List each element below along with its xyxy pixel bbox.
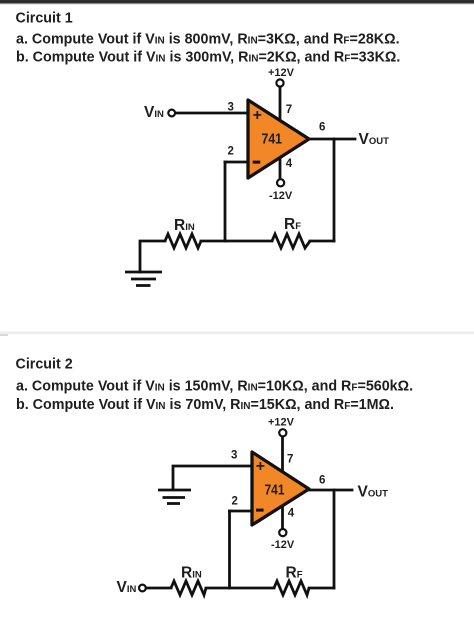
ground symbol circuit1 <box>125 272 162 286</box>
wire: Vin to pin 3 <box>177 112 249 115</box>
svg-text:4: 4 <box>288 508 295 520</box>
svg-text:b. Compute Vout if VIN is 70mV: b. Compute Vout if VIN is 70mV, RIN=15KΩ… <box>16 397 394 413</box>
svg-text:VIN: VIN <box>117 579 137 596</box>
wire: feedback vertical from output <box>333 490 336 588</box>
terminal Vin circuit2 <box>139 585 146 592</box>
svg-text:3: 3 <box>231 450 237 462</box>
op-amp minus input marker <box>253 161 261 164</box>
wire: pin 2 vertical to feedback node <box>224 162 227 241</box>
svg-text:RIN: RIN <box>174 217 195 234</box>
svg-text:6: 6 <box>319 475 325 487</box>
svg-text:Circuit 2: Circuit 2 <box>16 357 73 373</box>
wire: pin 3 to ground corner <box>173 466 252 489</box>
svg-text:VIN: VIN <box>144 104 164 121</box>
wire: pin 2 horizontal <box>230 510 253 513</box>
wire: pin 2 horizontal <box>225 161 249 164</box>
op-amp U1 741 triangle <box>248 100 309 178</box>
wire: Rf to feedback corner <box>309 587 334 590</box>
wire: pin 4 stem to -12V terminal <box>281 506 284 529</box>
svg-text:4: 4 <box>286 158 293 170</box>
svg-text:7: 7 <box>286 104 292 116</box>
svg-text:-12V: -12V <box>269 190 293 202</box>
svg-text:741: 741 <box>265 483 285 499</box>
svg-text:2: 2 <box>228 146 234 158</box>
resistor Rin circuit2 <box>171 581 206 595</box>
svg-text:RF: RF <box>284 216 301 233</box>
top black border bar <box>0 0 474 3</box>
terminal +12V circuit1 <box>276 79 283 86</box>
svg-text:VOUT: VOUT <box>359 131 390 148</box>
wire: Vin terminal to Rin <box>147 587 171 590</box>
svg-text:+: + <box>256 458 265 475</box>
svg-text:3: 3 <box>228 102 234 114</box>
wire: Rin to node to Rf <box>201 240 272 243</box>
resistor Rin circuit1 <box>165 234 201 248</box>
wire: pin 4 stem to -12V terminal <box>279 157 282 180</box>
svg-text:+12V: +12V <box>268 417 295 429</box>
terminal Vin circuit1 <box>168 110 175 117</box>
wire: feedback vertical from output <box>333 139 336 241</box>
svg-text:a. Compute Vout if VIN is 800m: a. Compute Vout if VIN is 800mV, RIN=3KΩ… <box>16 31 400 47</box>
wire: output from pin 6 <box>309 489 352 492</box>
resistor Rf circuit2 <box>274 581 309 595</box>
svg-text:b. Compute Vout if VIN is 300m: b. Compute Vout if VIN is 300mV, RIN=2KΩ… <box>16 50 400 66</box>
svg-text:2: 2 <box>232 496 238 508</box>
terminal -12V circuit1 <box>277 179 284 186</box>
op-amp minus input marker circuit2 <box>256 509 264 512</box>
svg-text:RIN: RIN <box>181 565 202 582</box>
section separator line <box>0 332 474 335</box>
svg-text:6: 6 <box>319 122 325 134</box>
terminal -12V circuit2 <box>279 529 286 536</box>
wire: ground corner to Rin <box>140 241 165 272</box>
terminal +12V circuit2 <box>279 429 286 436</box>
svg-text:+12V: +12V <box>268 67 295 79</box>
wire: Rf to feedback corner <box>310 240 334 243</box>
ground symbol circuit2 <box>158 490 191 504</box>
svg-text:RF: RF <box>286 565 303 582</box>
wire: output from pin 6 <box>309 138 355 141</box>
svg-text:-12V: -12V <box>271 539 295 551</box>
svg-text:VOUT: VOUT <box>358 484 389 501</box>
wire: +12V stem to op-amp pin 7 <box>279 86 282 121</box>
resistor Rf circuit1 <box>272 234 310 248</box>
wire: Rin to node to Rf <box>206 587 274 590</box>
wire: pin 2 vertical to input node <box>228 511 231 588</box>
svg-text:7: 7 <box>287 454 293 466</box>
svg-text:+: + <box>253 107 262 124</box>
wire: +12V stem to pin 7 <box>281 436 284 472</box>
svg-text:a. Compute Vout if VIN is 150m: a. Compute Vout if VIN is 150mV, RIN=10K… <box>16 379 413 395</box>
svg-text:Circuit 1: Circuit 1 <box>16 10 73 26</box>
svg-text:741: 741 <box>262 132 283 148</box>
op-amp U2 741 triangle <box>252 452 309 525</box>
